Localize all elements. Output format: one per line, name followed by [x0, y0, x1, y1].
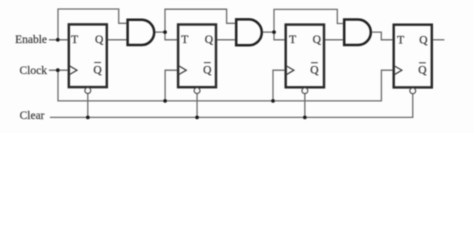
- wire staple3 node C over U3 to AND G3 top input: [274, 9, 344, 32]
- AND gate G1: [128, 20, 155, 45]
- flip-flop U4 clock triangle: [394, 66, 402, 75]
- svg-text:Enable: Enable: [15, 34, 47, 46]
- wire clock riser to U2: [165, 70, 178, 101]
- flip-flop U2 clear bubble: [194, 88, 200, 94]
- wire Q1 to G1 bottom input: [107, 39, 128, 41]
- svg-text:Q: Q: [419, 34, 428, 46]
- wire staple2 node B over U2 to AND G2 top input: [165, 9, 236, 32]
- svg-text:T: T: [181, 34, 188, 46]
- node junction clock bus U3: [271, 99, 275, 103]
- wire Q2 to G2 bottom input: [216, 39, 236, 41]
- svg-text:Q: Q: [418, 65, 427, 77]
- node C junction G2 out: [272, 30, 276, 34]
- flip-flop U4 clear bubble: [410, 88, 416, 94]
- wire node B jog to T of U2: [165, 32, 178, 40]
- flip-flop U2 pin label Qbar: [203, 63, 212, 77]
- flip-flop U4 box: [394, 25, 432, 88]
- node junction clear bus U2: [195, 116, 199, 120]
- wire Clear bus to U4 clear bubble: [50, 94, 413, 118]
- AND gate G2: [236, 19, 262, 45]
- flip-flop U2 box: [178, 25, 216, 88]
- wire Q4 output stub: [432, 39, 445, 41]
- wire G2 output to node C: [262, 31, 274, 33]
- svg-text:Q: Q: [93, 64, 102, 76]
- node junction Clock/U1: [56, 68, 60, 72]
- svg-text:Q: Q: [95, 34, 104, 46]
- wire clear riser to U2 bubble: [196, 94, 198, 118]
- wire Enable lead to T of U1: [49, 39, 69, 41]
- flip-flop U3 pin label Qbar: [310, 63, 319, 77]
- flip-flop U1 box: [69, 24, 107, 87]
- flip-flop U4 pin label Qbar: [418, 63, 427, 77]
- flip-flop U3 clock triangle: [286, 66, 294, 75]
- AND gate G3: [344, 20, 371, 46]
- wire G1 output to node B: [154, 31, 165, 33]
- wire clear riser to U1 bubble: [87, 93, 89, 117]
- svg-text:Q: Q: [203, 64, 212, 76]
- svg-text:Q: Q: [310, 65, 319, 77]
- node B junction G1 out: [163, 30, 167, 34]
- svg-text:Q: Q: [313, 34, 322, 46]
- flip-flop U1 clock triangle: [69, 66, 77, 75]
- wire clock riser to U3: [273, 70, 286, 101]
- svg-text:Clear: Clear: [20, 110, 45, 122]
- wire G3 output jog to T of U4: [371, 32, 394, 40]
- wire node C jog to T of U3: [274, 32, 286, 40]
- svg-text:T: T: [289, 34, 296, 46]
- wire Q3 to G3 bottom input: [324, 39, 344, 41]
- flip-flop U3 clear bubble: [302, 88, 308, 94]
- node junction clock bus U2: [163, 99, 167, 103]
- node junction clear bus U3: [303, 116, 307, 120]
- svg-text:Clock: Clock: [20, 65, 48, 77]
- wire clock drop and clock bus to U4: [58, 70, 394, 101]
- node junction clear bus U1: [86, 116, 90, 120]
- svg-text:T: T: [71, 34, 78, 46]
- wire staple1 Enable over U1 to AND G1 top input: [58, 9, 128, 40]
- flip-flop U1 clear bubble: [85, 88, 91, 94]
- wire Clock lead to clock pin of U1: [49, 69, 69, 71]
- svg-text:T: T: [397, 34, 404, 46]
- svg-text:Q: Q: [205, 34, 214, 46]
- wire clear riser to U3 bubble: [304, 94, 306, 118]
- flip-flop U3 box: [286, 25, 324, 88]
- node A junction Enable/T1: [56, 38, 60, 42]
- flip-flop U2 clock triangle: [179, 66, 187, 75]
- flip-flop U1 pin label Qbar: [93, 63, 102, 77]
